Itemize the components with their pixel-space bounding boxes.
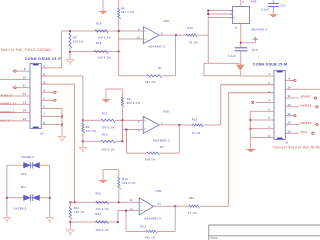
svg-text:R12: R12	[140, 224, 146, 228]
diode D10 (TVS)	[24, 162, 31, 168]
svg-text:14: 14	[158, 202, 162, 206]
svg-text:R5: R5	[160, 145, 164, 149]
ground flag (top, stage1 ref)	[102, 0, 104, 11]
svg-text:CONN DSUB 15-P: CONN DSUB 15-P	[25, 57, 62, 61]
svg-text:ADA4891-3: ADA4891-3	[153, 138, 170, 142]
svg-text:R9: R9	[127, 97, 131, 101]
wire R19 jog	[103, 169, 119, 171]
svg-text:R11: R11	[74, 206, 80, 210]
wire IC bus to J5 pin1	[208, 62, 239, 64]
junction pins 7-8	[61, 124, 63, 126]
svg-text:15: 15	[288, 131, 292, 133]
svg-text:SACB6.0: SACB6.0	[14, 206, 27, 210]
wire U2E top pin 4	[240, 0, 242, 7]
svg-text:75 1%: 75 1%	[189, 41, 198, 45]
junction R21 left	[82, 140, 84, 142]
wire inv node stage2	[121, 120, 123, 141]
svg-text:IN+: IN+	[230, 10, 235, 12]
svg-text:U2E: U2E	[251, 0, 257, 3]
svg-text:13: 13	[23, 102, 27, 104]
junction stub a	[207, 10, 209, 12]
svg-text:121 1%: 121 1%	[86, 129, 97, 133]
capacitor C11	[272, 0, 274, 4]
resistor R11 (100 1%)	[69, 202, 71, 207]
title block frame	[209, 224, 320, 226]
junction pins 6-7	[61, 116, 63, 118]
wire R24 row	[70, 221, 118, 223]
svg-text:R4: R4	[121, 6, 125, 10]
junction U2B output	[178, 124, 180, 126]
J4 pin15 wire + net label	[0, 120, 30, 122]
svg-text:0.1uF: 0.1uF	[261, 7, 269, 11]
wire stub pin a	[208, 10, 232, 12]
wire J4 pin3 to stage3	[41, 83, 74, 85]
resistor R4 (vertical 200 0.1%)	[118, 0, 120, 8]
svg-text:200 1%: 200 1%	[145, 235, 156, 239]
svg-text:200 1%: 200 1%	[145, 80, 156, 84]
svg-text:13: 13	[288, 114, 292, 116]
svg-text:R6: R6	[86, 125, 90, 129]
J4 pin2 stub	[41, 75, 47, 77]
J5 pin13 stub + flag	[285, 115, 293, 117]
svg-text:ADA4891-3: ADA4891-3	[251, 28, 268, 32]
svg-text:Connect Shell to HW_AFIELD SIG: Connect Shell to HW_AFIELD SIGNAL	[273, 146, 320, 150]
resistor R17 (100 0.1%)	[83, 119, 101, 121]
svg-text:HVINC1 C+: HVINC1 C+	[1, 102, 17, 106]
svg-text:100 0.1%: 100 0.1%	[102, 125, 116, 129]
svg-text:100 1%: 100 1%	[73, 40, 84, 44]
capacitor C12	[235, 47, 248, 49]
resistor R19 (200 0.1%)	[118, 170, 120, 177]
ground (J5 unused pins)	[246, 149, 256, 152]
wire stub pin c	[208, 17, 232, 19]
wire U2D output	[154, 205, 176, 207]
svg-text:10: 10	[23, 77, 27, 79]
wire U2C output	[159, 34, 176, 36]
svg-text:C11: C11	[281, 3, 287, 7]
J5 pin3 wire	[229, 92, 274, 94]
svg-text:t Shell to HW_FIELD SIGNAL: t Shell to HW_FIELD SIGNAL	[0, 48, 52, 52]
svg-text:R21: R21	[102, 132, 108, 136]
junction R17 right	[121, 119, 123, 121]
svg-text:HVINC1 C-: HVINC1 C-	[1, 110, 16, 114]
svg-text:14: 14	[23, 110, 27, 113]
J4 pin5 stub + flag	[41, 99, 53, 101]
junction pin 11 wire	[240, 42, 242, 44]
J4 pin3 stub	[41, 83, 47, 85]
svg-text:J5: J5	[285, 141, 289, 145]
J5 pin6 wire	[250, 119, 274, 121]
svg-text:ADA4891-3: ADA4891-3	[144, 217, 161, 221]
ground (below C12)	[240, 51, 242, 65]
junction R18 right	[118, 51, 120, 53]
svg-text:D10: D10	[21, 172, 27, 176]
resistor R24 (100 0.1%)	[96, 221, 109, 224]
wire D10 row	[7, 164, 50, 166]
junction feedback tap stage2	[125, 129, 127, 131]
J5 pin7 wire	[250, 128, 274, 130]
connector J5 body	[274, 71, 285, 140]
svg-text:J4: J4	[40, 131, 44, 135]
svg-text:AUX1 C+: AUX1 C+	[1, 93, 14, 97]
svg-text:U2D: U2D	[156, 189, 162, 193]
junction U2C output	[175, 34, 177, 36]
svg-text:10: 10	[136, 36, 140, 40]
junction R16/R4 node	[118, 30, 120, 32]
svg-text:ADA4891-3: ADA4891-3	[148, 44, 165, 48]
wire J4 pin1 to node (vertical)	[61, 31, 63, 68]
svg-text:R25: R25	[189, 196, 195, 200]
wire inv node stage3	[117, 211, 119, 222]
svg-text:12: 12	[23, 94, 27, 96]
svg-text:HVINC2: HVINC2	[301, 121, 312, 125]
svg-text:R10: R10	[188, 26, 194, 30]
svg-text:CONN DSUB 15-M: CONN DSUB 15-M	[253, 63, 287, 67]
wire U2B output	[159, 124, 179, 126]
svg-text:75 1%: 75 1%	[192, 131, 201, 135]
J4 pin7 wire	[41, 116, 62, 118]
wire to pin 12	[119, 201, 139, 203]
ground (below C11)	[272, 7, 274, 15]
ground (TVS right)	[46, 218, 54, 221]
junction feedback tap stage3	[125, 210, 127, 212]
junction stub b	[207, 13, 209, 15]
wire stub pin b	[208, 13, 232, 15]
junction R11 top	[69, 201, 71, 203]
svg-text:4: 4	[242, 0, 244, 4]
J4 pin10 wire	[0, 78, 30, 80]
svg-text:SACB6.0: SACB6.0	[21, 155, 34, 159]
J4 pin6 wire	[41, 107, 62, 109]
ground (stage2 ref)	[105, 89, 107, 99]
svg-text:100 0.1%: 100 0.1%	[102, 147, 116, 151]
J4 pin9 stub + flag	[17, 70, 31, 72]
wire pins6-8 to gnd	[61, 108, 63, 136]
svg-text:0.1uF: 0.1uF	[228, 54, 236, 58]
J5 pin12 stub + net label	[285, 106, 299, 108]
J4 pin14 wire + net label	[0, 112, 30, 114]
svg-text:5: 5	[138, 120, 140, 124]
svg-text:14: 14	[288, 122, 292, 125]
svg-text:200 1%: 200 1%	[145, 157, 156, 161]
svg-text:OUT: OUT	[230, 17, 236, 19]
connector J4 body	[30, 64, 41, 129]
svg-text:12: 12	[130, 198, 134, 202]
wire R20 row	[70, 201, 119, 203]
feedback resistor R12 (200 1%)	[174, 206, 176, 231]
svg-text:11: 11	[23, 86, 26, 88]
svg-text:100 1%: 100 1%	[74, 210, 85, 214]
junction J5 pin7	[249, 128, 251, 130]
svg-text:100 0.1%: 100 0.1%	[96, 207, 110, 211]
J5 pin1 wire + arrow flag	[241, 75, 274, 77]
junction R20 right	[118, 201, 120, 203]
ground (below R8)	[69, 52, 71, 60]
svg-text:R19: R19	[122, 177, 128, 181]
svg-text:11: 11	[288, 96, 291, 98]
wire D11 row	[7, 197, 50, 199]
svg-text:R8: R8	[73, 36, 77, 40]
svg-text:AIL1 C: AIL1 C	[1, 118, 11, 122]
wire J4 pin2 to stage2	[41, 75, 83, 77]
J4 pin1 stub	[41, 67, 47, 69]
svg-text:12: 12	[288, 105, 292, 107]
svg-text:R20: R20	[96, 192, 102, 196]
diode D11 (TVS)	[24, 195, 31, 201]
svg-text:9: 9	[138, 28, 140, 32]
svg-text:6: 6	[138, 129, 140, 133]
svg-text:15: 15	[23, 119, 27, 121]
J5 pin5 wire	[250, 110, 274, 112]
resistor R10 (series out)	[176, 34, 186, 36]
resistor R16 (100 0.1%)	[95, 30, 108, 33]
wire to J5 pin3	[228, 93, 230, 206]
svg-text:AIL2: AIL2	[301, 130, 308, 134]
svg-text:C12: C12	[252, 48, 258, 52]
J5 pin8 wire	[250, 137, 274, 139]
J5 pin4 stub + xmark	[256, 101, 274, 103]
wire U2E bottom pin 11	[240, 24, 242, 48]
ground (below R6)	[82, 141, 84, 147]
op-amp U2D	[139, 198, 154, 215]
svg-text:75 1%: 75 1%	[188, 211, 197, 215]
svg-text:R15: R15	[192, 118, 198, 122]
svg-text:R24: R24	[96, 212, 102, 216]
svg-text:Title: Title	[210, 236, 217, 240]
J5 pin14 stub + net label	[285, 123, 299, 125]
resistor R20 (100 0.1%)	[96, 201, 109, 204]
wire R18 row (y=51.5)	[70, 51, 119, 53]
svg-text:200 0.1%: 200 0.1%	[121, 10, 135, 14]
J4 pin4 stub + flag	[41, 91, 53, 93]
svg-text:100 0.1%: 100 0.1%	[98, 36, 112, 40]
svg-text:HVINC2: HVINC2	[301, 104, 312, 108]
wire R10 node vertical	[207, 11, 209, 64]
resistor R6 (termination)	[82, 120, 84, 122]
wire TVS right vertical	[49, 165, 51, 217]
junction U2D output	[174, 205, 176, 207]
svg-text:100 0.1%: 100 0.1%	[96, 228, 110, 232]
svg-text:10: 10	[288, 87, 292, 89]
svg-text:IN-: IN-	[230, 14, 234, 16]
J5 pin11 stub + net label	[285, 97, 299, 99]
ground (TVS left)	[3, 218, 10, 221]
wire J5 unused to gnd	[249, 111, 251, 149]
J4 pin12 wire + net label	[0, 95, 30, 97]
op-amp U2B	[143, 116, 159, 133]
wire R9 jog	[106, 88, 122, 90]
J4 pin13 wire + net label	[0, 103, 30, 105]
svg-text:R16: R16	[96, 22, 102, 26]
J5 pin10 wire (off edge)	[285, 88, 320, 90]
svg-text:R17: R17	[102, 111, 108, 115]
junction R8 top	[69, 30, 71, 32]
svg-text:13: 13	[130, 207, 134, 211]
ground (stage3 ref)	[102, 170, 104, 180]
ground (J4 pins 6-8)	[58, 137, 65, 140]
resistor R15 (75 1%)	[179, 124, 192, 126]
resistor R21 (100 0.1%)	[83, 140, 101, 142]
junction D11 left	[6, 197, 8, 199]
wire to pin 5	[122, 119, 143, 121]
svg-text:200 0.1%: 200 0.1%	[122, 181, 136, 185]
junction R21 right	[121, 140, 123, 142]
J4 pin8 wire	[41, 124, 62, 126]
svg-text:11: 11	[234, 26, 238, 30]
wire to pin 10	[119, 38, 144, 40]
net arrow (right of pin11)	[241, 42, 256, 44]
svg-text:D11: D11	[21, 185, 27, 189]
wire inverting node vertical	[118, 31, 120, 76]
resistor R8 (vertical 100 1%)	[69, 31, 71, 33]
junction R8 bottom	[69, 51, 71, 53]
resistor R25 (75 1%)	[175, 205, 189, 207]
junction stage3 input	[74, 201, 76, 203]
wire to J5 pin2	[220, 85, 222, 125]
svg-text:SENSE: SENSE	[301, 95, 311, 99]
svg-text:R7: R7	[158, 66, 162, 70]
J5 pin9 stub + flag	[285, 79, 293, 81]
svg-text:U2C: U2C	[164, 19, 170, 23]
svg-text:100 0.1%: 100 0.1%	[98, 55, 112, 59]
junction R24 right	[117, 221, 119, 223]
ground (below R11)	[69, 222, 71, 230]
resistor R9 (200 0.1%)	[121, 89, 123, 97]
J5 pin15 stub + net label	[285, 132, 299, 134]
J4 pin11 stub + flag	[17, 87, 31, 89]
feedback resistor R7 (200 1%)	[175, 35, 177, 76]
svg-text:200 0.1%: 200 0.1%	[127, 101, 141, 105]
feedback resistor R5 (200 1%)	[178, 125, 180, 153]
svg-text:R18: R18	[96, 41, 102, 45]
svg-text:U2B: U2B	[163, 110, 169, 114]
wire stage1 input (horiz y=31)	[62, 30, 144, 32]
resistor R18 (100 0.1%)	[94, 50, 108, 53]
junction J5 pin6	[249, 119, 251, 121]
op-amp U2C	[143, 27, 159, 44]
junction R11 bottom	[69, 221, 71, 223]
J5 pin2 wire	[221, 84, 274, 86]
junction R17 left	[82, 119, 84, 121]
junction D11 right	[49, 197, 51, 199]
op-amp U2E power block	[233, 7, 250, 24]
wire TVS left vertical	[6, 165, 8, 217]
